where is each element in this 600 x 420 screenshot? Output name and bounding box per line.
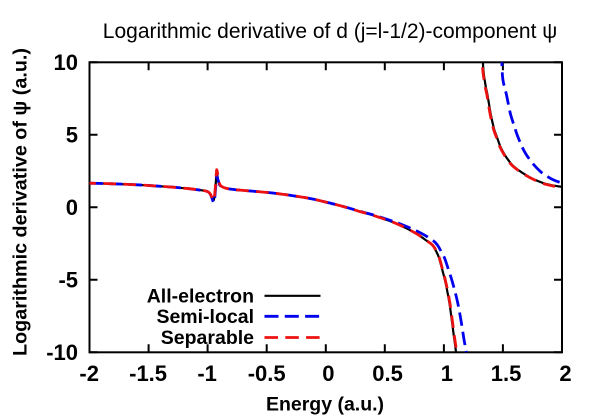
- svg-text:All-electron: All-electron: [147, 285, 254, 307]
- plot frame: [90, 62, 563, 352]
- svg-text:Logarithmic derivative of d (j: Logarithmic derivative of d (j=l-1/2)-co…: [103, 20, 557, 43]
- svg-text:1: 1: [441, 361, 453, 386]
- axis ticks: [90, 62, 563, 352]
- svg-text:-1.5: -1.5: [129, 361, 167, 386]
- svg-text:1.5: 1.5: [491, 361, 522, 386]
- svg-text:-0.5: -0.5: [248, 361, 286, 386]
- svg-text:5: 5: [66, 122, 78, 147]
- svg-text:Logarithmic derivative of ψ (a: Logarithmic derivative of ψ (a.u.): [10, 48, 32, 356]
- svg-text:2: 2: [559, 361, 571, 386]
- x tick labels: [79, 361, 571, 386]
- svg-text:Energy (a.u.): Energy (a.u.): [266, 394, 384, 416]
- svg-text:Semi-local: Semi-local: [156, 306, 254, 328]
- curve all-electron black: [90, 33, 564, 381]
- svg-text:Separable: Separable: [161, 327, 254, 349]
- curve semi-local blue dashed: [90, 33, 564, 381]
- curve separable red dashed: [90, 33, 564, 381]
- svg-text:0: 0: [322, 361, 334, 386]
- svg-text:-10: -10: [46, 340, 78, 365]
- svg-text:-5: -5: [58, 267, 78, 292]
- svg-text:0.5: 0.5: [372, 361, 403, 386]
- svg-text:10: 10: [54, 50, 78, 75]
- svg-text:-1: -1: [197, 361, 217, 386]
- y tick labels: [46, 50, 78, 365]
- svg-text:-2: -2: [79, 361, 99, 386]
- svg-text:0: 0: [66, 195, 78, 220]
